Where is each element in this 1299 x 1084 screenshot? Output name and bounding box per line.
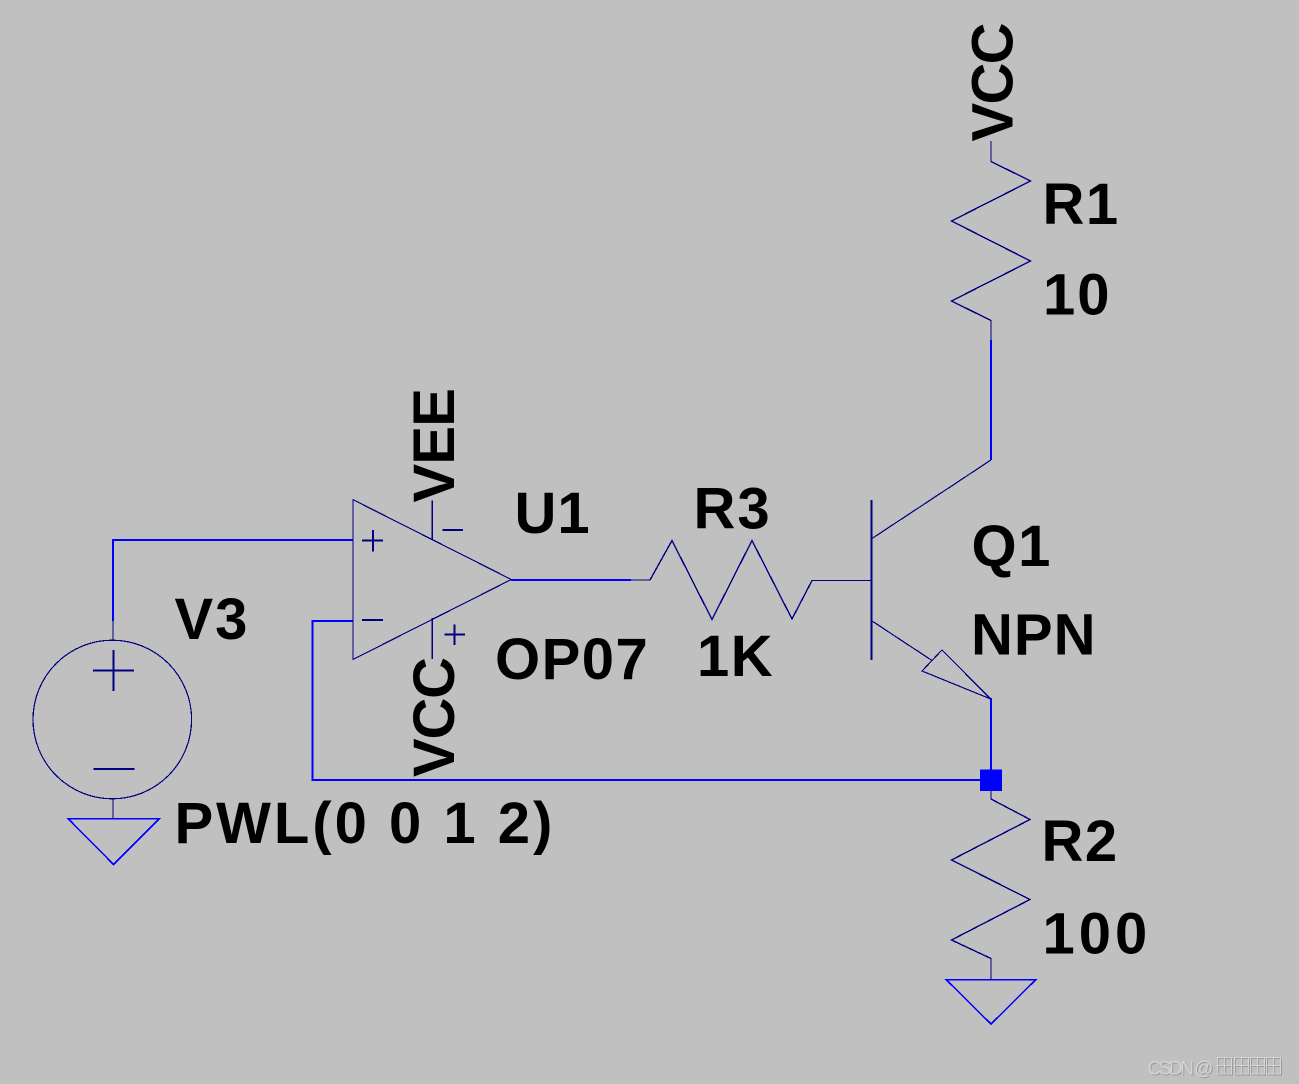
svg-text:PWL(0 0 1 2): PWL(0 0 1 2) <box>175 791 556 856</box>
svg-text:100: 100 <box>1043 902 1152 967</box>
svg-text:10: 10 <box>1043 262 1112 327</box>
watermark CSDN <box>1148 1059 1214 1081</box>
ground under R2 <box>946 980 1036 1025</box>
wire V3 top to op-amp noninverting input <box>113 540 353 621</box>
svg-text:Q1: Q1 <box>972 514 1052 579</box>
svg-text:VCC: VCC <box>961 23 1026 141</box>
wire Q1 emitter to node <box>990 698 992 771</box>
resistor R3 <box>631 541 872 620</box>
svg-text:R1: R1 <box>1043 172 1120 237</box>
svg-text:VEE: VEE <box>402 389 467 503</box>
wire R1 to Q1 collector <box>990 340 992 460</box>
resistor R1 <box>952 141 1031 341</box>
voltage source V3 <box>33 620 192 819</box>
svg-text:U1: U1 <box>515 481 591 546</box>
resistor R2 <box>952 791 1031 980</box>
ground under V3 <box>68 819 160 865</box>
svg-text:V3: V3 <box>175 587 250 652</box>
op-amp U1 <box>353 500 511 660</box>
wire op-amp inverting input feedback <box>313 621 992 780</box>
wire op-amp output to R3 <box>511 579 631 581</box>
node junction (emitter/R2/feedback) <box>980 770 1002 792</box>
svg-text:R2: R2 <box>1042 809 1119 874</box>
watermark CJK glyph blocks <box>1218 1058 1282 1076</box>
svg-text:1K: 1K <box>697 624 774 689</box>
svg-text:NPN: NPN <box>971 603 1096 668</box>
svg-text:R3: R3 <box>694 477 772 542</box>
svg-text:CSDN @: CSDN @ <box>1148 1059 1213 1080</box>
svg-text:OP07: OP07 <box>495 627 649 692</box>
transistor Q1 <box>872 460 992 699</box>
svg-text:VCC: VCC <box>402 658 467 777</box>
